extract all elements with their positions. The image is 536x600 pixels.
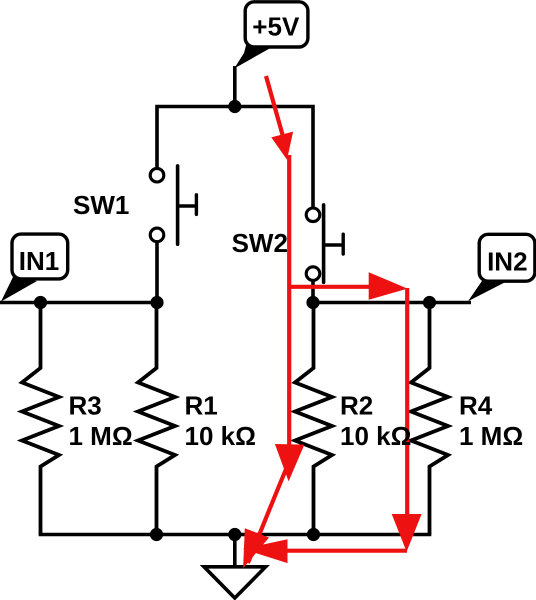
svg-text:+5V: +5V [252, 12, 300, 42]
svg-text:R3: R3 [69, 391, 102, 421]
wire red current: slant from +5V into SW2 branch [266, 76, 284, 140]
power +5V callout [234, 2, 308, 69]
label R2 value 10 kOhm [340, 391, 411, 452]
red arrowhead through R4 [392, 514, 422, 552]
label R1 value 10 kOhm [185, 391, 256, 452]
switch SW2 pushbutton [306, 205, 343, 282]
svg-text:1 MΩ: 1 MΩ [69, 421, 133, 451]
node junction R3 top [34, 296, 47, 309]
svg-text:R1: R1 [185, 391, 218, 421]
wire red current: curve from R2 to ground [248, 462, 289, 563]
wire SW1 bottom terminal to IN1 rail [155, 241, 159, 302]
wire top rail with drops to SW1 and SW2 [157, 107, 313, 208]
node junction on top rail [228, 100, 241, 113]
svg-text:SW2: SW2 [232, 228, 288, 258]
red arrowhead through R2 [275, 444, 305, 481]
wire red current: vertical along SW2 and R2 [287, 155, 291, 448]
resistor R2 [295, 303, 332, 535]
svg-text:1 MΩ: 1 MΩ [459, 421, 523, 451]
svg-text:R4: R4 [459, 391, 493, 421]
red arrowhead entering SW2 branch [271, 132, 293, 160]
wire bottom ground rail [39, 533, 432, 537]
resistor R3 [22, 303, 59, 535]
wire +5V stub down to top rail [233, 66, 237, 107]
resistor R1 [138, 303, 175, 535]
node junction R4 top [423, 296, 436, 309]
port IN1 callout [1, 234, 68, 301]
svg-text:IN1: IN1 [19, 246, 59, 276]
svg-text:SW1: SW1 [73, 190, 129, 220]
red arrowhead into ground (down-left) [243, 528, 269, 568]
node junction R1 bottom [150, 528, 163, 541]
node junction ground stub [228, 528, 241, 541]
svg-text:10 kΩ: 10 kΩ [340, 421, 411, 451]
svg-text:R2: R2 [340, 391, 373, 421]
red arrowhead at ground (left) [243, 539, 288, 563]
node junction R2 bottom [307, 528, 320, 541]
svg-text:10 kΩ: 10 kΩ [185, 421, 256, 451]
label R4 value 1 MOhm [459, 391, 523, 452]
wire red current: vertical along R4 [405, 288, 409, 516]
wire red current: horizontal toward IN2 [289, 285, 370, 289]
ground symbol [204, 567, 266, 598]
wire IN1 rail (left mid) [0, 301, 157, 305]
switch SW1 pushbutton [150, 166, 196, 244]
label R3 value 1 MOhm [69, 391, 133, 452]
red arrowhead toward IN2 [369, 272, 408, 300]
svg-text:IN2: IN2 [487, 247, 527, 277]
wire ground stub [233, 535, 237, 566]
wire red current: bottom return to ground [286, 549, 407, 553]
node junction R1 / SW1 [150, 296, 163, 309]
wire IN2 rail (right mid) [313, 301, 471, 305]
resistor R4 [411, 303, 448, 535]
port IN2 callout [468, 234, 535, 301]
node junction R2 / SW2 [306, 296, 319, 309]
wire SW2 bottom terminal to IN2 rail [311, 280, 315, 303]
